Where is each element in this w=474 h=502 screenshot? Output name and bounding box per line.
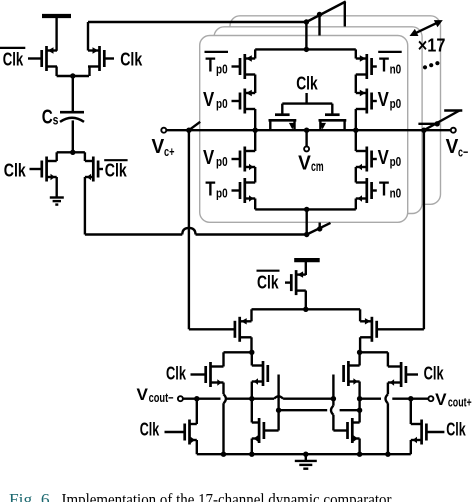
ground (comparator) [295,454,317,469]
ellipsis dots (x17 stack) [423,61,440,69]
pmos Clk reset right [388,362,418,387]
node A junction (top of Cs) [70,73,75,78]
svg-text:Clk: Clk [166,364,187,384]
wire latch-pmos-left source up [251,352,253,365]
wire latch-nmos-right source down [358,439,360,455]
label Clk (left reset pmos) [166,364,187,384]
wire head pmos drain to tail rail [305,291,307,310]
wire capacitor to node B [72,120,74,152]
label Clk (gate of M2) [120,49,143,69]
label Clk (bottom-left nmos) [140,419,160,439]
svg-text:p0: p0 [216,185,228,200]
label Vc- [446,136,469,159]
transistor Vp0 (left column third) [232,147,256,172]
svg-text:V: V [446,136,459,158]
label x17 [418,35,446,56]
switch arm (top channel-select) [306,2,345,23]
wire bl-nmos source down [196,440,198,454]
node A-prime junction [304,232,309,237]
svg-text:cout+: cout+ [448,396,472,410]
box bottom rail stubs [255,199,356,210]
capacitor Cs [60,112,84,122]
label Vcm [298,152,324,174]
node T junction (top wire meets box feed) [304,19,309,24]
channel box middle (of x17 stack) [214,27,422,214]
transistor Tp0 (left column bottom) [232,178,256,203]
svg-text:T: T [205,54,215,76]
svg-text:C: C [42,105,53,128]
junction Vcout- rail [194,396,336,401]
label Clk (right reset pmos) [424,364,445,384]
pmos M2 Clk (top-right of Cs pair) [88,46,114,71]
pmos Tp0-bar (left column top) [232,54,256,79]
junction left column on mid rail [253,128,258,133]
channel box back (of x17 stack) [230,16,441,205]
svg-text:Clk: Clk [3,49,24,69]
svg-text:p0: p0 [390,96,402,111]
label Vp0 (left lower) [203,147,228,169]
label Tn0 [379,178,401,200]
node Vcout+ terminal [428,396,433,401]
pmos latch left (cross-coupled) [252,361,268,386]
long wire Vc- to input pair (right) [377,130,424,329]
label Vcout- [137,385,174,405]
svg-text:n0: n0 [390,185,402,200]
node Vcm terminal [304,146,309,151]
svg-text:Clk: Clk [120,49,143,69]
pmos Vp0 (left column second) [232,89,256,114]
node Vc+ terminal [161,128,166,133]
svg-text:×17: ×17 [418,35,446,56]
svg-text:T: T [379,54,389,76]
wire Vp0 to Tp0 (left) [254,167,256,183]
wire latch-pmos-left drain down [251,382,253,399]
label Tp0 [205,178,227,200]
wire Tn0-bar to Vp0 (right) [355,75,357,94]
pmos latch right (cross-coupled) [344,361,360,386]
wire M3 source down to ground [56,177,58,197]
wire Vp0 down to mid rail (left) [254,109,256,130]
label Vcout+ [435,390,471,410]
node Vc- terminal [451,128,456,133]
svg-text:V: V [435,390,447,409]
transistor Vp0 (right column third) [356,147,377,172]
box top rail stubs [255,49,356,58]
wire Tp0-bar to Vp0 (left) [254,75,256,94]
svg-text:Clk: Clk [446,419,466,439]
tail rail (input pair sources) [252,307,361,312]
cross-coupling wire (gate of left pair to out+) [276,399,362,413]
nmos latch right (cross-coupled) [333,418,359,443]
wire reset-right source up [387,352,389,366]
nmos Tn0-bar (right column top) [356,54,377,79]
svg-text:p0: p0 [216,154,228,169]
caption Fig. 6 [9,490,392,502]
junction Vc- line [421,128,426,133]
nmos Clk bottom-left [165,420,197,445]
channel box front (sampling network) [200,36,408,223]
svg-text:c+: c+ [164,144,175,159]
svg-text:T: T [379,178,389,200]
svg-text:V: V [378,147,390,169]
svg-text:c−: c− [458,145,468,160]
wire M2 drain down [88,67,90,77]
wire Vp0 to Tn0 (right) [355,167,357,183]
wire latch-right gate link (with hop over cross wire) [331,375,333,431]
svg-text:Clk: Clk [4,160,27,180]
wire M4 drain up to node B [84,152,86,161]
wire mid rail down to Vp0 (right) [355,130,357,151]
svg-text:V: V [298,152,311,174]
comparator ground rail [197,452,411,457]
mid rail (Vc+ to Vc-) [166,129,451,131]
wire mid rail down to Vp0 (left) [254,130,256,151]
label Clk (dummy switches) [296,73,318,93]
pmos M1 Clk-bar (top-left) [28,46,57,71]
label Clk (gate of M3) [4,160,27,180]
wire down into box top rail [305,22,307,49]
box top rail [255,47,356,52]
svg-text:p0: p0 [390,154,402,169]
dummy switch right (horizontal mosfet) [319,115,347,131]
wire reset-right drain down with hop over Vcout+ rail [386,383,388,455]
label Cs [42,105,59,128]
wire Vcm terminal [305,130,307,146]
svg-text:Clk: Clk [140,419,160,439]
svg-text:n0: n0 [390,61,402,76]
wire M1 drain to node A [57,67,89,77]
label Clk-bar (gate of M1) [0,48,25,69]
transistor Vp0 (right column second) [356,89,377,114]
junction Vcm on mid rail [304,128,309,133]
junction Vcout+ rail [357,396,414,401]
rail Vcout- with hop gap [183,396,334,398]
wire Vp0 down to mid rail (right) [355,109,357,130]
wire input-left drain down [250,337,252,352]
wire M2 source up and top rail to box [88,22,306,51]
wire box bottom rail down [306,209,308,234]
label Clk-bar (gate of M4) [104,160,127,180]
wire input-right drain down [359,337,361,352]
nmos latch left (cross-coupled) [252,418,279,443]
wire latch-nmos-left source down [251,439,253,455]
svg-text:V: V [152,136,165,158]
switch arm (Vc+ side) [189,122,200,130]
wire M4 source down to comparator supply line [85,177,182,235]
node B junction (bottom of Cs) [57,150,85,155]
internal node rail right [357,350,388,355]
wire input-right source up [359,309,361,321]
nmos M3 Clk (bottom-left) [30,157,57,182]
label Vp0 (right lower) [378,147,402,169]
long wire Vc+ to input pair (left) [189,130,235,329]
wire hop over Vc+ line [182,228,306,235]
svg-text:Clk: Clk [257,273,279,293]
svg-text:Implementation of the 17-chann: Implementation of the 17-channel dynamic… [62,490,392,502]
wire latch-pmos-right drain down [358,382,360,399]
wire br-nmos source down [410,440,412,454]
clk gate wiring (dummies) [282,93,332,114]
nmos M4 Clk-bar (bottom-right) [85,157,103,182]
junction Vc+ line [186,128,191,133]
svg-text:V: V [203,147,215,169]
svg-text:V: V [378,89,390,111]
wire reset-left drain down with hop over Vcout- rail [224,383,226,455]
rail Vcout+ with hop gap [360,398,429,400]
svg-text:T: T [205,178,215,200]
svg-text:cout−: cout− [149,391,174,405]
junction right column on mid rail [353,128,358,133]
svg-text:V: V [137,385,149,404]
svg-text:Clk: Clk [424,364,445,384]
pmos Clk-bar (comparator head) [285,270,306,295]
label Clk-bar (comparator reset pmos) [257,271,280,293]
wire latch-nmos-left drain up [251,399,253,423]
wire M3 drain up to node B [56,152,58,161]
wire latch-left gate link down [277,375,279,431]
svg-text:Clk: Clk [296,73,318,93]
label Clk (bottom-right nmos) [446,419,466,439]
power supply VDD bar (top-left) [42,16,71,51]
svg-text:p0: p0 [216,96,228,111]
wire input-left source up [250,309,252,321]
nmos Tn0 (right column bottom) [356,178,377,203]
dummy switch left (horizontal mosfet) [269,115,297,131]
switch arm (Vc- side) [418,111,462,131]
power supply VDD bar (comparator) [294,260,320,275]
label Vc+ [152,136,175,159]
label Vp0 (right upper) [378,89,402,111]
label Tp0-bar [205,52,229,77]
svg-text:cm: cm [311,158,324,174]
label Tn0-bar [378,52,402,77]
svg-text:Fig. 6.: Fig. 6. [9,490,54,502]
svg-text:V: V [203,89,215,111]
svg-text:Clk: Clk [105,160,128,180]
nmos Clk bottom-right [411,420,445,445]
switch tap to middle box [317,12,322,36]
switch tap (bottom) [317,223,322,232]
x17 stack arrow [410,20,443,36]
pmos input left (Vc+) [235,317,252,342]
wire out+ node down to latch-nmos-right [358,410,360,422]
switch contact to back box [344,2,346,27]
switch arm (bottom channel-select) [307,223,331,235]
label Vp0 (left upper) [203,89,228,111]
pmos input right (Vc-) [360,317,377,342]
wire reset-left source up [222,352,224,366]
svg-text:p0: p0 [216,61,228,76]
wire bl-nmos drain up to Vcout- [196,399,198,424]
node Vcout- terminal [178,396,183,401]
internal node rail left [224,350,255,355]
pmos Clk reset left [191,362,224,387]
ground (Cs circuit) [50,198,64,205]
box bottom rail [255,207,356,212]
wire node A to capacitor [72,74,74,112]
wire br-nmos drain up to Vcout+ [410,399,412,424]
svg-text:s: s [53,113,59,128]
wire latch-pmos-right source up [358,352,360,365]
